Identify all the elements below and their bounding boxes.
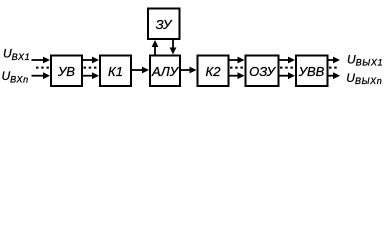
svg-text:УВ: УВ — [57, 64, 75, 79]
svg-text:УВВ: УВВ — [298, 64, 325, 79]
svg-text:К1: К1 — [108, 64, 123, 79]
svg-text:ОЗУ: ОЗУ — [249, 64, 277, 79]
svg-text:АЛУ: АЛУ — [151, 64, 180, 79]
svg-text:К2: К2 — [206, 64, 222, 79]
svg-text:ЗУ: ЗУ — [156, 17, 173, 32]
